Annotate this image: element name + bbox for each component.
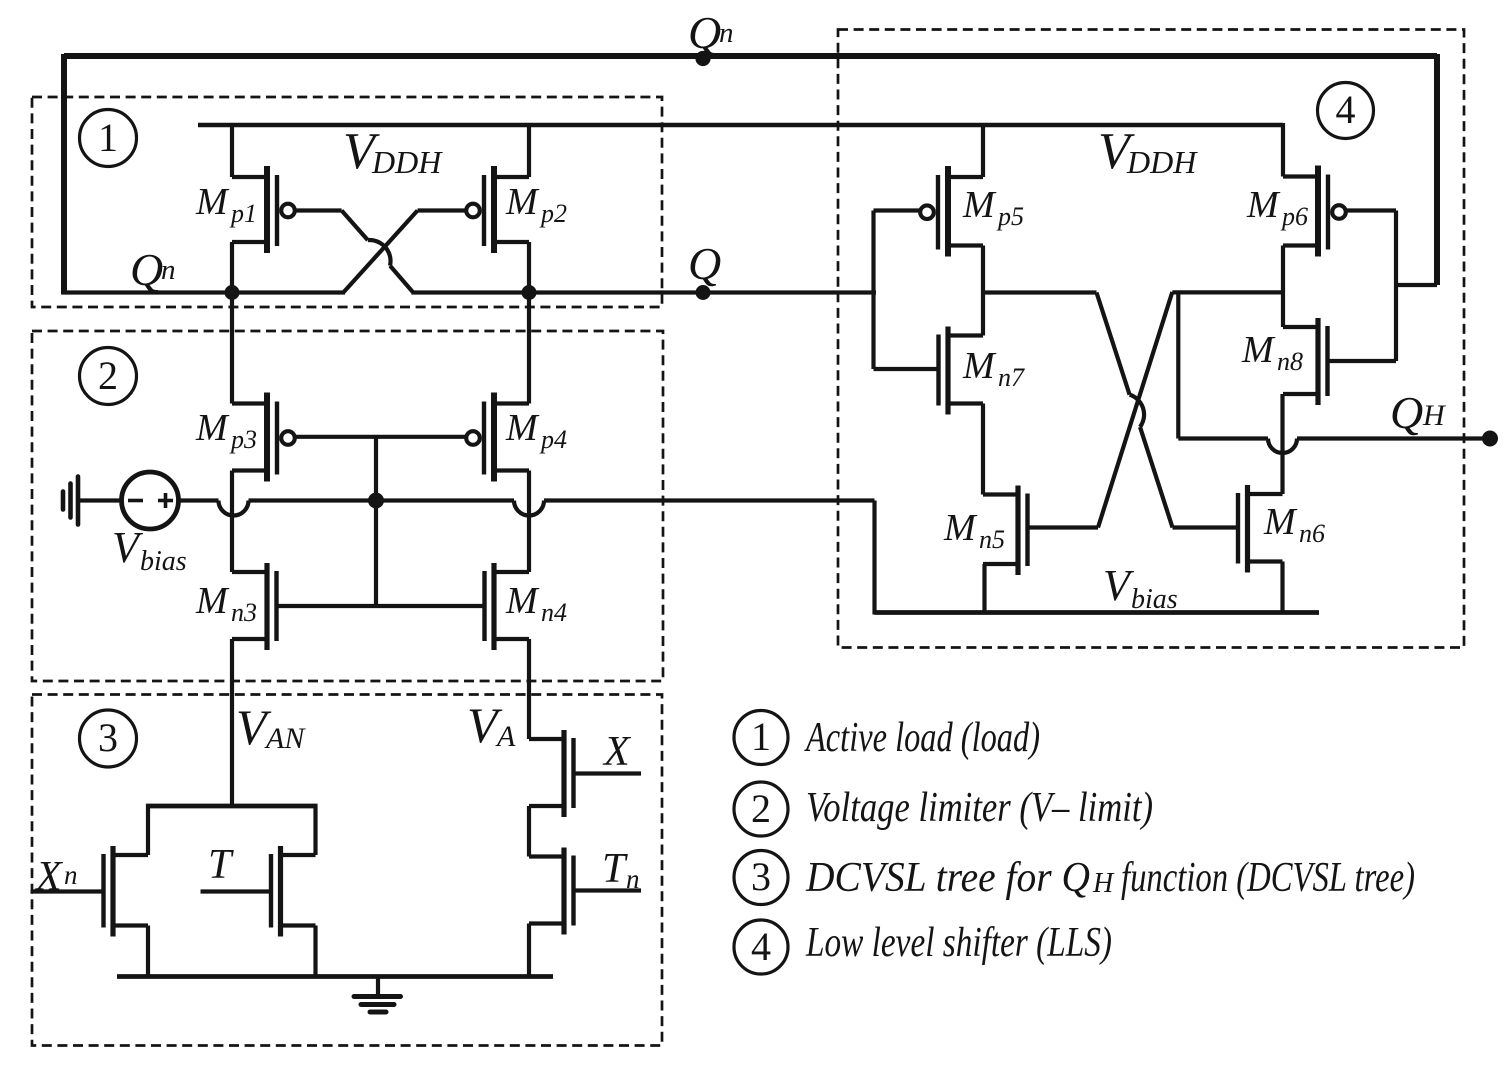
- wire VDDH drop to Mp6: [1281, 123, 1285, 177]
- svg-text:n: n: [64, 860, 78, 890]
- net label VDDH (region 4): [1098, 123, 1198, 180]
- wire Mn8 gate line: [1328, 359, 1397, 363]
- svg-text:4: 4: [751, 924, 771, 969]
- svg-text:n6: n6: [1299, 519, 1325, 548]
- wire Mn7 source down: [981, 404, 985, 495]
- label Xn: [34, 854, 78, 900]
- wire Mp2 source to VDDH: [527, 125, 531, 177]
- svg-text:Voltage limiter (V– limit): Voltage limiter (V– limit): [806, 785, 1153, 831]
- wire gate bias vertical: [374, 437, 378, 606]
- label Mn5: [943, 507, 1005, 554]
- svg-text:n7: n7: [998, 363, 1025, 392]
- label Mp5: [962, 184, 1024, 231]
- label circled 3: [80, 710, 137, 767]
- svg-text:Q: Q: [688, 7, 721, 58]
- node label Qn: [130, 244, 176, 295]
- label Mn3: [195, 580, 257, 627]
- svg-text:M: M: [505, 407, 540, 449]
- wire Mn3 source to VAN: [230, 639, 234, 806]
- wire Mn3-Mn4 gate line: [277, 604, 485, 608]
- wire Mp4 drain to bias crossing: [527, 471, 531, 573]
- transistor Mn5: [983, 486, 1028, 576]
- wire Mp1 gate to Q diagonal (with hop): [295, 211, 413, 293]
- label Mn6: [1263, 501, 1325, 548]
- svg-text:M: M: [195, 407, 230, 449]
- wire Vbias feed drop: [872, 501, 876, 615]
- svg-text:2: 2: [98, 353, 118, 398]
- transistor Mn6: [1238, 485, 1283, 573]
- svg-text:M: M: [1241, 329, 1276, 371]
- wire Xn gate input: [31, 889, 104, 893]
- wire Vbias rail (region 4): [875, 610, 1320, 615]
- svg-text:M: M: [943, 507, 978, 549]
- wire Mp6 gate vertical: [1346, 211, 1396, 362]
- svg-text:AN: AN: [264, 722, 306, 755]
- wire Mp1 drain to Qn: [230, 242, 234, 293]
- wire left leg upper: [146, 804, 150, 855]
- svg-text:p6: p6: [1280, 202, 1308, 231]
- wire Mn4 source to VA: [527, 639, 531, 739]
- label circled 1: [80, 110, 137, 167]
- wire Mp2 drain to Q: [527, 242, 531, 293]
- wire Mp2 gate to Qn diagonal: [343, 211, 466, 293]
- label T: [208, 842, 234, 888]
- label Mn8: [1241, 329, 1303, 376]
- wire Mn5 source to Vbias rail: [982, 564, 986, 613]
- svg-text:1: 1: [751, 714, 771, 759]
- label circled 2: [80, 348, 137, 405]
- svg-text:4: 4: [1336, 87, 1356, 132]
- svg-text:M: M: [962, 345, 997, 387]
- label circled 4: [1318, 83, 1374, 139]
- transistor Mp6: [1283, 166, 1346, 257]
- svg-text:3: 3: [751, 854, 771, 899]
- wire Mp3 drain to bias crossing: [230, 471, 234, 573]
- svg-text:n8: n8: [1277, 347, 1303, 376]
- svg-text:M: M: [195, 181, 230, 223]
- wire Q to Mp4 source: [527, 293, 531, 404]
- wire Mn8 source to Mn6 drain: [1280, 394, 1284, 494]
- svg-text:n: n: [719, 17, 734, 49]
- dashed box region 4: [838, 30, 1464, 648]
- svg-text:n: n: [161, 254, 176, 286]
- transistor Tn: [529, 848, 574, 935]
- wire QH line with hop: [1178, 439, 1490, 454]
- dashed box region 3: [32, 695, 662, 1046]
- legend item 3 circle: [734, 851, 788, 905]
- node Q junction at Mp2 drain: [522, 285, 537, 300]
- wire parallel-pair top bar: [146, 804, 318, 809]
- svg-text:X: X: [602, 729, 632, 775]
- transistor Mp3: [232, 393, 295, 482]
- wire Qn right drop: [1434, 54, 1440, 285]
- label Mp3: [195, 407, 257, 454]
- wire Mp5 source to VDDH: [981, 125, 985, 177]
- wire right leg lower: [313, 926, 317, 977]
- transistor Mp5: [920, 166, 983, 257]
- svg-text:n3: n3: [231, 598, 257, 627]
- wire Qn to Mp3 source: [230, 293, 234, 404]
- transistor Mp1: [232, 166, 295, 253]
- svg-text:p4: p4: [539, 425, 567, 454]
- dashed box region 1: [32, 97, 662, 307]
- wire Q node line: [412, 290, 877, 294]
- voltage source Vbias: [122, 472, 179, 529]
- label Mn4: [505, 580, 567, 627]
- wire Mn7 gate line: [874, 367, 939, 371]
- wire X gate input: [574, 771, 642, 775]
- svg-text:DDH: DDH: [371, 144, 443, 180]
- label Mp1: [195, 181, 257, 228]
- label Mn7: [962, 345, 1025, 392]
- svg-text:Active load (load): Active load (load): [804, 715, 1040, 761]
- wire Vbias line: [179, 501, 875, 516]
- legend item 4 text: [805, 920, 1112, 966]
- svg-text:M: M: [1263, 501, 1298, 543]
- node Qn junction at Mp1 drain: [225, 285, 240, 300]
- wire node B to Mn5 gate (diagonal): [1028, 292, 1283, 528]
- dashed box region 2: [32, 331, 663, 681]
- wire Tn gate input: [574, 888, 642, 892]
- svg-text:M: M: [195, 580, 230, 622]
- svg-text:n: n: [626, 864, 640, 894]
- transistor Mn8: [1283, 318, 1328, 405]
- ground (region 3): [354, 977, 401, 1013]
- net label Vbias (region 4): [1103, 561, 1178, 615]
- node label Qn (top): [688, 7, 734, 58]
- wire Qn feed to gates: [1396, 283, 1437, 287]
- node label QH: [1390, 387, 1447, 438]
- svg-text:T: T: [208, 842, 234, 888]
- node bias junction: [368, 493, 384, 509]
- wire right leg upper: [313, 804, 317, 855]
- legend item 3 text: [805, 855, 1415, 901]
- transistor Xn: [104, 846, 149, 937]
- wire ground rail: [117, 974, 553, 979]
- node Q dot: [696, 285, 711, 300]
- label Mp4: [505, 407, 567, 454]
- svg-text:Q: Q: [1390, 387, 1423, 438]
- svg-text:3: 3: [98, 715, 118, 760]
- svg-text:bias: bias: [140, 546, 187, 577]
- wire Mp6 drain to Mn8 drain: [1281, 246, 1285, 328]
- transistor Mn7: [939, 327, 984, 415]
- svg-text:function (DCVSL tree): function (DCVSL tree): [1121, 855, 1415, 901]
- wire node B to QH drop: [1176, 292, 1180, 438]
- label X: [602, 729, 632, 775]
- wire ground to Vbias source: [78, 498, 122, 502]
- label Tn: [602, 846, 640, 894]
- label Vbias: [112, 523, 187, 577]
- wire T gate input: [201, 889, 272, 893]
- svg-text:M: M: [1246, 184, 1281, 226]
- wire node A to Mn6 gate (diagonal with hop): [983, 293, 1237, 528]
- wire Qn left drop: [61, 54, 67, 295]
- label Mp6: [1246, 184, 1308, 231]
- node Qn top junction: [695, 51, 710, 66]
- legend item 4 circle: [734, 920, 788, 974]
- legend item 2 circle: [734, 782, 788, 836]
- wire Tn source to ground rail: [527, 924, 531, 977]
- svg-text:Q: Q: [130, 244, 163, 295]
- svg-text:2: 2: [751, 786, 771, 831]
- net label VA: [467, 697, 516, 753]
- svg-text:DDH: DDH: [1126, 144, 1198, 180]
- svg-text:n4: n4: [541, 598, 567, 627]
- transistor T: [271, 846, 316, 937]
- net label VAN: [236, 699, 306, 755]
- svg-text:bias: bias: [1131, 584, 1178, 615]
- svg-text:1: 1: [98, 115, 118, 160]
- wire X source to Tn drain: [527, 806, 531, 857]
- node label Q: [688, 238, 721, 289]
- wire Mp5 drain to Mn7 drain: [981, 246, 985, 336]
- node QH output dot: [1482, 431, 1498, 447]
- svg-text:H: H: [1092, 868, 1115, 899]
- transistor Mn4: [485, 563, 530, 650]
- svg-text:p3: p3: [229, 425, 257, 454]
- svg-text:T: T: [602, 846, 628, 892]
- svg-text:p2: p2: [539, 199, 567, 228]
- wire VDDH rail: [198, 123, 1283, 128]
- legend item 1 circle: [734, 711, 788, 765]
- svg-text:H: H: [1422, 399, 1447, 432]
- svg-text:A: A: [495, 720, 516, 753]
- svg-text:X: X: [34, 854, 64, 900]
- svg-text:Q: Q: [688, 238, 721, 289]
- svg-text:p1: p1: [229, 199, 257, 228]
- transistor X: [529, 730, 574, 817]
- svg-text:DCVSL tree for Q: DCVSL tree for Q: [805, 855, 1090, 901]
- transistor Mp2: [466, 166, 529, 253]
- svg-text:n5: n5: [979, 525, 1005, 554]
- svg-text:Low level shifter (LLS): Low level shifter (LLS): [805, 920, 1112, 966]
- transistor Mn3: [232, 563, 277, 650]
- svg-text:M: M: [962, 184, 997, 226]
- svg-text:p5: p5: [996, 202, 1024, 231]
- ground (region 2, left): [63, 477, 78, 525]
- svg-text:M: M: [505, 580, 540, 622]
- wire Mp3-Mp4 gate line: [295, 435, 466, 439]
- wire Qn top bus: [64, 53, 1437, 59]
- legend item 1 text: [804, 715, 1040, 761]
- legend item 2 text: [806, 785, 1153, 831]
- wire Mp1 source to VDDH: [230, 125, 234, 177]
- wire Qn node line: [62, 290, 345, 294]
- transistor Mp4: [466, 393, 529, 482]
- svg-text:M: M: [505, 181, 540, 223]
- label Mp2: [505, 181, 567, 228]
- net label VDDH (region 1): [343, 123, 443, 180]
- wire Mp5 gate vertical: [874, 211, 921, 370]
- wire left leg lower: [146, 926, 150, 977]
- wire Mn6 source to Vbias rail: [1280, 562, 1284, 613]
